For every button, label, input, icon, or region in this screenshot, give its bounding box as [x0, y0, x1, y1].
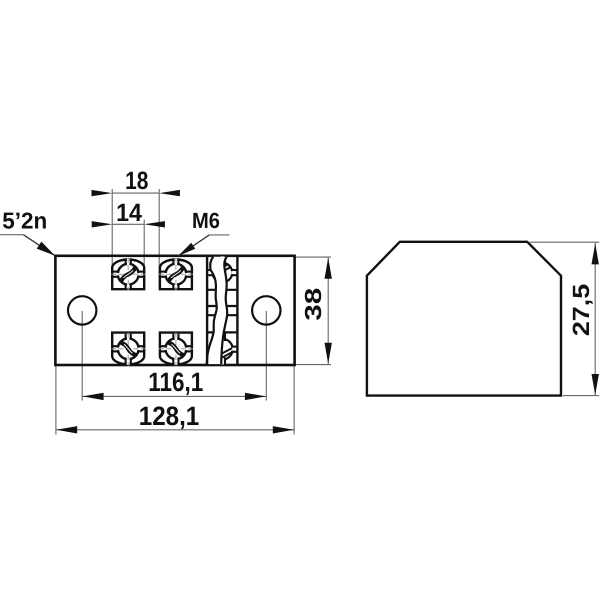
extension line dim128 right [293, 365, 295, 434]
arrow 5'2n [37, 242, 55, 256]
leader M6 [209, 234, 229, 236]
dimension line 18 [112, 192, 159, 194]
terminal screw bottom-right [159, 333, 193, 366]
extension line dim18 left [111, 189, 113, 289]
svg-text:27,5: 27,5 [568, 284, 594, 336]
main body outline [55, 256, 294, 365]
svg-text:M6: M6 [192, 208, 220, 233]
arrow M6 [178, 243, 195, 256]
extension line dim27 top [530, 241, 599, 243]
shunt band right edge [236, 256, 238, 365]
extension line dim14 right [143, 220, 145, 290]
dimension line 27,5 [594, 243, 596, 396]
mounting hole left [68, 296, 96, 324]
terminal screw top-right [159, 258, 193, 291]
extension line dim18 right [158, 189, 160, 289]
extension line hole left center [81, 311, 83, 401]
svg-text:116,1: 116,1 [148, 367, 203, 397]
arrow dim18 right [159, 190, 180, 196]
arrow dim128 left [56, 426, 77, 433]
dimension line 14 [112, 223, 144, 225]
extension line dim27 bottom [563, 395, 599, 397]
leader 5'2n [0, 234, 23, 236]
dimension line 128,1 [56, 429, 294, 431]
extension line dim128 left [55, 365, 57, 434]
dimension line 38 [327, 257, 329, 364]
terminal screw top-left [111, 258, 145, 291]
mounting hole right [252, 296, 280, 324]
terminal screw bottom-left [111, 333, 145, 366]
shunt element band with screws [207, 256, 237, 364]
dimension line 116,1 [82, 395, 266, 397]
svg-text:38: 38 [300, 288, 326, 321]
arrow dim18 left [92, 190, 113, 196]
arrow dim116 right [245, 393, 266, 400]
extension line dim38 bottom [295, 364, 331, 366]
arrow dim116 left [83, 393, 104, 400]
arrow dim38 top [325, 258, 332, 279]
shunt band left edge [206, 256, 208, 365]
arrow dim27 bottom [592, 374, 599, 395]
arrow dim27 top [592, 243, 599, 264]
svg-text:5’2n: 5’2n [2, 207, 47, 233]
side view body outline [367, 242, 561, 396]
svg-text:128,1: 128,1 [139, 401, 200, 431]
svg-text:18: 18 [125, 167, 148, 195]
arrow dim128 right [273, 426, 294, 433]
extension line hole right center [265, 311, 267, 401]
arrow dim38 bottom [325, 343, 332, 364]
svg-text:14: 14 [116, 199, 142, 227]
arrow dim14 left [92, 221, 113, 227]
arrow dim14 right [144, 221, 165, 227]
break line wavy [207, 257, 228, 364]
extension line dim38 top [295, 256, 331, 258]
